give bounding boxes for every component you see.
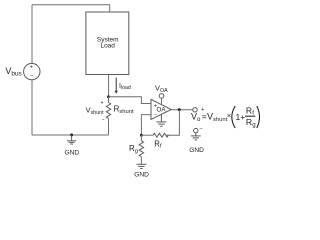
svg-text:1+: 1+	[236, 112, 246, 122]
svg-text:GND: GND	[64, 149, 79, 156]
terminal Vo-	[194, 128, 198, 132]
wire to op-amp + input	[109, 97, 152, 104]
svg-text:g: g	[252, 123, 255, 129]
svg-text:OA: OA	[157, 107, 167, 114]
svg-text:×: ×	[227, 111, 231, 120]
terminal Vo+	[193, 108, 197, 112]
ground GND (left)	[67, 135, 76, 144]
wire op-amp output	[171, 109, 193, 111]
svg-text:−: −	[30, 74, 33, 80]
wire shunt node to resistor	[108, 97, 110, 103]
node GND junction	[70, 134, 73, 137]
parenthesis right	[257, 106, 260, 128]
node shunt top junction	[107, 95, 110, 98]
svg-text:−: −	[101, 117, 104, 123]
wire top rail	[32, 4, 110, 6]
svg-text:−: −	[199, 126, 202, 132]
arrow Iload	[115, 78, 117, 92]
svg-text:shunt: shunt	[213, 117, 228, 123]
svg-text:+: +	[30, 64, 33, 70]
wire box bottom to shunt node	[108, 75, 110, 97]
wire output down to feedback	[166, 110, 179, 136]
wire left vertical from top rail to Vbus	[31, 5, 33, 64]
svg-text:R: R	[246, 117, 252, 127]
parenthesis left	[232, 106, 235, 128]
wire top rail into box	[109, 5, 111, 12]
resistor Rg	[140, 135, 142, 141]
ground op-amp	[156, 115, 166, 127]
wire Rg to ground	[140, 157, 142, 165]
svg-text:−: −	[154, 112, 157, 118]
svg-text:GND: GND	[189, 147, 204, 154]
op-amp OA	[151, 99, 171, 119]
node feedback junction	[140, 134, 143, 137]
ground below Rg	[136, 164, 146, 168]
source Vbus	[24, 63, 40, 79]
svg-text:GND: GND	[134, 172, 149, 179]
resistor Rf	[153, 133, 168, 137]
svg-text:+: +	[100, 101, 103, 107]
terminal VOA	[159, 94, 164, 99]
wire Vbus to bottom rail	[31, 80, 33, 135]
svg-text:+: +	[154, 103, 157, 109]
ground below Vo-	[191, 133, 201, 140]
wire resistor bottom to rail	[108, 119, 110, 136]
box System Load	[86, 12, 129, 75]
svg-text:R: R	[246, 106, 252, 116]
svg-text:Load: Load	[100, 43, 115, 50]
wire Rf to feedback node	[141, 134, 153, 136]
resistor Rshunt	[106, 103, 110, 119]
node output junction	[178, 108, 181, 111]
wire bottom rail	[32, 134, 109, 136]
wire to op-amp - input	[141, 115, 151, 136]
